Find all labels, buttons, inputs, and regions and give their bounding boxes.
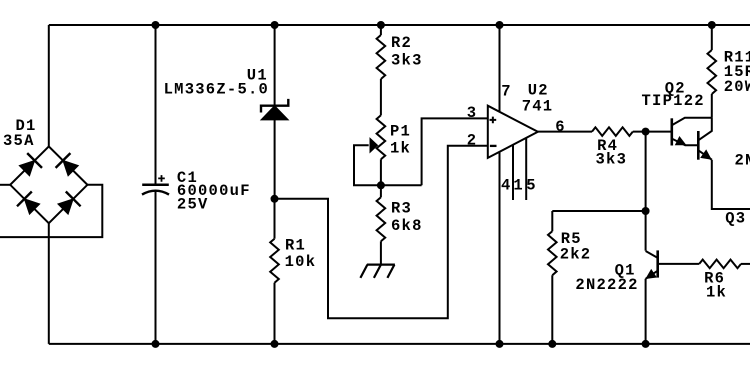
wire: reference node to op-amp inverting input pin 2: [275, 146, 488, 318]
junction: pin 7 on positive rail: [496, 21, 504, 29]
transistor Q1 2N2222 base bar: [656, 250, 659, 277]
svg-text:4: 4: [501, 176, 512, 194]
junction node: U1 anode / R1 top / feedback to pin 2: [271, 195, 279, 203]
junction: C1 top on positive rail: [152, 21, 160, 29]
wire: rail to R2 top lead: [380, 25, 382, 35]
wire: bridge bottom vertex down to bottom rail: [48, 223, 50, 344]
wire: left drop from top rail to bridge top vertex: [48, 25, 50, 146]
svg-text:2: 2: [467, 132, 478, 150]
potentiometer P1 zigzag body: [377, 115, 386, 159]
op-amp minus (inverting) input marker: [490, 145, 497, 147]
svg-text:3k3: 3k3: [596, 151, 628, 169]
wire: op-amp pin 1 stub: [512, 145, 514, 200]
svg-text:3k3: 3k3: [391, 51, 423, 69]
wire: R4 to Q2 base: [633, 131, 672, 133]
junction: wiper tie on P1 bottom / R3 node: [377, 181, 385, 189]
transistor Q3 2N3055 base bar: [697, 131, 700, 160]
wire: U1 anode down to R1 node: [274, 120, 276, 199]
diode D1b (right AC to +) on top-right edge: [56, 153, 79, 176]
resistor R2 zigzag body: [377, 35, 386, 79]
svg-text:2N3055: 2N3055: [735, 152, 750, 170]
Q2 emitter diagonal with arrow into Q3 base: [672, 136, 699, 145]
wire: top rail down to U1 cathode: [274, 25, 276, 106]
svg-text:741: 741: [522, 97, 554, 115]
wire: C1 bottom plate down to ground rail: [155, 191, 157, 344]
wire: R11 bottom to collector bus: [711, 94, 713, 118]
svg-text:2k2: 2k2: [560, 246, 592, 264]
transistor Q2 TIP122 base bar: [670, 118, 673, 145]
junction: C1 bottom on ground rail: [152, 340, 160, 348]
potentiometer P1 wiper arrow: [370, 138, 378, 152]
wire: R2 bottom to P1 top: [380, 79, 382, 115]
wire: top rail down to C1 + plate: [155, 25, 157, 185]
op-amp U2 triangle body: [488, 106, 538, 158]
wire: R1 bottom lead to ground rail: [274, 283, 276, 344]
svg-text:3: 3: [467, 104, 478, 122]
svg-text:LM336Z-5.0: LM336Z-5.0: [164, 81, 270, 99]
wire: R6 to right edge (output sense): [741, 263, 750, 265]
svg-text:6k8: 6k8: [391, 217, 423, 235]
svg-text:P1: P1: [390, 122, 411, 140]
wire: node across to R5 top lead: [552, 211, 645, 231]
C1 polarity plus sign: [158, 175, 165, 182]
Q2 collector diagonal and bus to R11/Q3: [672, 118, 712, 125]
zener reference U1 anode triangle: [261, 106, 288, 120]
diode D1d (- to right AC) on bottom-right edge: [58, 192, 81, 215]
wire: AC input left to bridge left vertex: [0, 184, 10, 186]
wire: Q1 collector lead: [645, 211, 647, 251]
wire: Q1 emitter to ground rail: [645, 279, 647, 344]
wire: Q3 emitter to right edge output: [712, 160, 750, 209]
svg-text:R2: R2: [391, 34, 412, 52]
op-amp plus (non-inverting) input marker: [490, 117, 497, 124]
svg-text:1k: 1k: [706, 284, 727, 302]
junction node: R5 top / Q1 collector: [642, 207, 650, 215]
junction: R1 bottom on ground rail: [271, 340, 279, 348]
wire: base node down to R5 and Q1 collector: [645, 132, 647, 211]
svg-text:35A: 35A: [3, 132, 35, 150]
wire: op-amp pin 7 V+ to positive rail: [499, 25, 501, 112]
junction node: R4 / Q2 base / bias network: [642, 128, 650, 136]
wire: P1 bottom lead to R3 top: [380, 159, 382, 197]
wire: rail to R11 top lead: [711, 25, 713, 50]
resistor R6 zigzag body: [699, 260, 741, 269]
diode D1a (lower-left AC to +) on top-left edge: [19, 153, 42, 176]
resistor R1 zigzag body: [270, 239, 279, 283]
Q3 collector diagonal up to bus: [698, 118, 712, 141]
svg-text:20W: 20W: [724, 78, 750, 96]
svg-text:Q3: Q3: [725, 210, 746, 228]
resistor R3 zigzag body: [377, 197, 386, 241]
wire: op-amp output pin 6 to R4: [538, 131, 592, 133]
junction: U1 top on positive rail: [271, 21, 279, 29]
svg-text:R3: R3: [391, 200, 412, 218]
wire: op-amp pin 4 V- to ground rail: [499, 152, 501, 344]
capacitor C1 bottom curved plate: [142, 191, 169, 195]
svg-text:7: 7: [501, 83, 512, 101]
capacitor C1 top (+) plate: [142, 183, 169, 186]
wire: R5 bottom to ground rail: [551, 275, 553, 344]
wire: P1 bottom node up to op-amp non-inverting input pin 3: [422, 118, 488, 185]
junction: R11 top on positive rail: [708, 21, 716, 29]
junction: R5 bottom on ground rail: [548, 340, 556, 348]
wire: node down to R1 top lead: [274, 199, 276, 239]
wire: op-amp pin 5 stub: [525, 138, 527, 200]
svg-text:2N2222: 2N2222: [575, 276, 638, 294]
resistor R5 zigzag body: [548, 231, 557, 275]
junction: pin 4 on ground rail: [496, 340, 504, 348]
Q1 collector diagonal: [646, 251, 658, 258]
svg-text:R1: R1: [285, 237, 306, 255]
wire: R3 bottom to ground symbol: [380, 241, 382, 264]
Q3 emitter diagonal with arrow: [698, 149, 712, 159]
svg-text:25V: 25V: [177, 196, 209, 214]
ground symbol below R3: [360, 265, 395, 278]
resistor R11 zigzag body: [708, 50, 717, 94]
svg-text:5: 5: [526, 176, 537, 194]
Q1 emitter diagonal with arrow: [645, 269, 657, 279]
svg-text:1k: 1k: [390, 140, 411, 158]
zener reference U1 cathode bar with bent ends: [261, 99, 288, 113]
wire: Q1 base to R6: [658, 263, 700, 265]
wire: bottom ground rail y=343.9: [49, 343, 750, 345]
svg-text:6: 6: [555, 118, 566, 136]
resistor R4 zigzag body: [592, 127, 633, 136]
bridge rectifier D1 diamond outline: [10, 146, 87, 223]
svg-text:1: 1: [513, 176, 524, 194]
wire: AC input from bridge right vertex around to left edge: [0, 185, 102, 237]
svg-text:10k: 10k: [285, 253, 317, 271]
wire: top positive rail y=25: [49, 24, 750, 26]
junction: R2 top on positive rail: [377, 21, 385, 29]
wire: P1 wiper looped to P1 bottom node: [354, 145, 422, 185]
svg-text:TIP122: TIP122: [642, 92, 705, 110]
diode D1c (- to left AC) on bottom-left edge: [17, 192, 40, 215]
junction: Q1 emitter on ground rail: [642, 340, 650, 348]
